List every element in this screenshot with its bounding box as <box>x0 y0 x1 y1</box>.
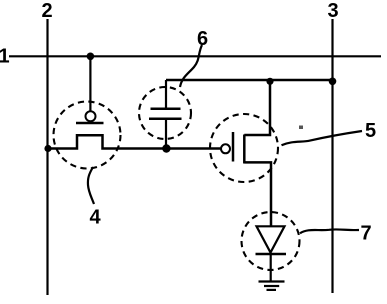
svg-text:2: 2 <box>41 0 52 22</box>
svg-text:5: 5 <box>365 120 376 142</box>
svg-text:4: 4 <box>89 207 101 229</box>
svg-text:6: 6 <box>197 28 208 50</box>
svg-text:1: 1 <box>0 46 10 68</box>
svg-text:7: 7 <box>360 223 371 245</box>
svg-text:3: 3 <box>327 0 338 22</box>
